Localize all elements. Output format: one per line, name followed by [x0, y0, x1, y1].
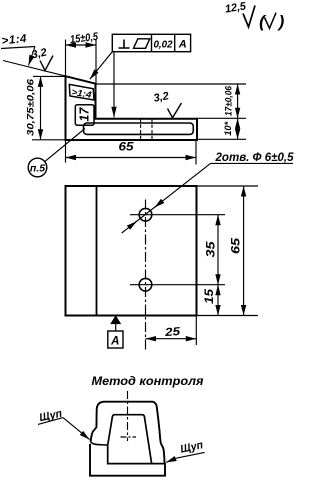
dimension 15 [204, 285, 218, 316]
gauge base plate [90, 444, 165, 476]
front view column edge [96, 186, 98, 316]
part inner cavity contour [108, 415, 152, 464]
svg-text:25: 25 [163, 326, 181, 339]
dimension 25 [146, 316, 197, 346]
dimension 10* [223, 118, 238, 139]
feeler label Щуп left [38, 408, 90, 440]
taper mark >1:4 top-left [1, 33, 35, 66]
svg-text:10*: 10* [223, 121, 234, 136]
marking frame 17 on part [75, 105, 94, 126]
svg-text:A: A [178, 39, 187, 51]
svg-text:35: 35 [205, 241, 217, 258]
dimension 15±0,5 [66, 31, 100, 84]
leader from frame to taper surface [90, 52, 113, 79]
feature control frame perpendicularity/flatness 0,02 A [112, 34, 190, 51]
hole callout 2отв. Ф 6±0,5 [122, 152, 294, 233]
svg-text:65: 65 [119, 142, 135, 154]
side view part outline [66, 76, 198, 140]
svg-text:A: A [110, 336, 119, 348]
gauge plate step [108, 445, 165, 464]
part flange bottom-left edge [91, 442, 108, 446]
right extension lines [96, 83, 247, 85]
svg-text:): ) [277, 12, 285, 31]
svg-text:65: 65 [230, 237, 242, 254]
roughness 3,2 on taper surface [30, 47, 53, 71]
svg-text:15: 15 [204, 288, 216, 304]
part outer contour on gauge [91, 402, 165, 463]
dimension 65 side view [66, 140, 197, 165]
slot groove in side view [84, 123, 194, 134]
roughness (check) in parentheses [259, 12, 285, 31]
dimension 35 [205, 215, 218, 285]
hole top [139, 208, 152, 221]
svg-text:2отв. Ф 6±0,5: 2отв. Ф 6±0,5 [214, 152, 294, 164]
dimension 65 front view [197, 186, 259, 316]
datum A symbol [108, 316, 123, 348]
svg-text:17±0,06: 17±0,06 [224, 85, 235, 116]
svg-text:п.5: п.5 [30, 163, 45, 175]
roughness general 12,5 top-right [224, 0, 255, 27]
front view outline [66, 186, 197, 316]
note circle п.5 [28, 129, 85, 177]
marking frame >1:4 on part [69, 84, 94, 100]
leader from frame to arm top surface [113, 52, 115, 118]
svg-text:0,02: 0,02 [154, 38, 173, 50]
dimension 30,75±0,06 [26, 76, 66, 139]
hidden hole lines in side view [140, 119, 142, 140]
feeler label Щуп right [166, 439, 205, 462]
roughness 3,2 on arm top [153, 90, 182, 118]
vertical centerline through holes [145, 200, 147, 353]
taper surface extension line [3, 61, 70, 78]
svg-text:Метод контроля: Метод контроля [92, 374, 204, 388]
dimension 17±0,06 [224, 84, 238, 118]
gauge figure centerline [127, 391, 129, 441]
svg-text:17: 17 [77, 107, 92, 122]
svg-text:30,75±0,06: 30,75±0,06 [26, 78, 36, 136]
hole bottom [139, 278, 152, 291]
